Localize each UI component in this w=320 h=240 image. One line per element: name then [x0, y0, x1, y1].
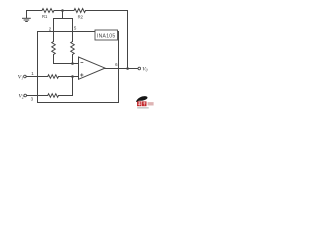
- svg-text:R1: R1: [42, 14, 48, 19]
- svg-text:R2: R2: [78, 14, 84, 19]
- svg-text:INA105: INA105: [97, 33, 115, 39]
